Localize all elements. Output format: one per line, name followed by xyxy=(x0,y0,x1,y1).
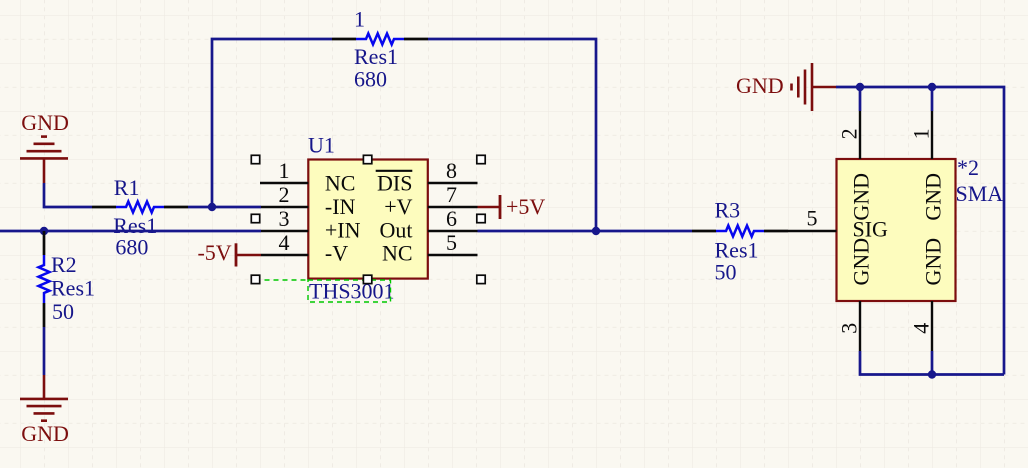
wire: R1 to inverting input (pin 2) xyxy=(188,206,261,209)
wire: GND top-left down to R1 xyxy=(44,183,92,207)
svg-text:+V: +V xyxy=(384,194,412,219)
svg-text:*2: *2 xyxy=(957,155,979,180)
node: junction GND bus / SMA pin 2 xyxy=(856,83,864,91)
node: junction output/feedback xyxy=(592,227,600,235)
svg-text:5: 5 xyxy=(446,230,457,255)
wire: top segment right of R(1) down to output node xyxy=(428,39,596,231)
resistor R? "1" (feedback 680) xyxy=(332,34,428,45)
svg-text:R2: R2 xyxy=(51,252,77,277)
svg-text:50: 50 xyxy=(715,260,737,285)
pin 3 (+IN) xyxy=(261,230,308,232)
svg-text:GND: GND xyxy=(849,238,874,286)
pin 8 (DIS) xyxy=(428,182,478,184)
pin 5 of SMA (left, SIG) xyxy=(788,230,837,232)
pin 5 (NC) xyxy=(428,254,478,256)
wire: stub to SMA pin 1 xyxy=(931,87,934,111)
svg-text:1: 1 xyxy=(354,7,365,32)
node: junction feedback/R1 xyxy=(208,203,216,211)
pin 4 (-V) xyxy=(261,254,308,256)
svg-text:50: 50 xyxy=(52,299,74,324)
svg-text:GND: GND xyxy=(21,110,69,135)
svg-text:+5V: +5V xyxy=(506,194,545,219)
svg-text:1: 1 xyxy=(279,158,290,183)
node: junction GND bus / SMA pin 1 xyxy=(928,83,936,91)
svg-text:680: 680 xyxy=(354,66,387,91)
svg-text:NC: NC xyxy=(325,170,356,195)
svg-text:6: 6 xyxy=(446,206,457,231)
wire: output (pin 6) to R3 xyxy=(478,230,693,233)
power port GND bottom-left xyxy=(20,375,69,446)
svg-text:SMA: SMA xyxy=(956,181,1004,206)
svg-text:-IN: -IN xyxy=(325,194,356,219)
pin 7 (+V) xyxy=(428,206,478,208)
svg-text:-5V: -5V xyxy=(197,240,231,265)
wire: main input wire to +IN (pin 3) xyxy=(0,230,261,233)
svg-text:SIG: SIG xyxy=(853,216,889,241)
power port GND top-right (rotated) xyxy=(736,63,836,111)
resistor R2 (vertical) xyxy=(39,231,50,327)
svg-text:GND: GND xyxy=(921,173,946,221)
op-amp U1 body xyxy=(308,160,428,279)
pin 3 of SMA (bottom-left) xyxy=(859,301,861,351)
power port +5V on pin 7 xyxy=(478,194,546,219)
svg-text:4: 4 xyxy=(279,230,290,255)
wire: feedback vertical + top segment left of R(1) xyxy=(212,39,332,207)
svg-text:GND: GND xyxy=(21,421,69,446)
svg-text:R3: R3 xyxy=(715,197,741,222)
svg-text:1: 1 xyxy=(909,128,934,139)
svg-text:R1: R1 xyxy=(114,175,140,200)
svg-text:-V: -V xyxy=(325,241,348,266)
svg-text:GND: GND xyxy=(921,238,946,286)
node: junction main wire / R2 xyxy=(40,227,48,235)
svg-text:NC: NC xyxy=(382,241,413,266)
connector P? SMA body xyxy=(837,159,956,301)
svg-text:U1: U1 xyxy=(308,133,335,158)
svg-text:3: 3 xyxy=(836,323,861,334)
pin 1 (NC) xyxy=(260,182,308,184)
svg-text:THS3001: THS3001 xyxy=(309,279,395,304)
svg-text:Out: Out xyxy=(380,217,413,242)
power port -5V on pin 4 xyxy=(197,240,261,266)
power port GND top-left xyxy=(20,110,69,183)
selection handles of U1 xyxy=(251,155,485,283)
wire: SMA pin 3 down and along bottom xyxy=(860,351,1004,375)
wire: stub to SMA pin 2 xyxy=(859,87,862,111)
resistor R1 xyxy=(92,202,188,213)
svg-text:5: 5 xyxy=(807,205,818,230)
selection dashed box around THS3001 xyxy=(256,280,391,302)
wire: GND top-right bus across SMA pins, down right side xyxy=(836,87,1004,375)
svg-text:Res1: Res1 xyxy=(354,44,398,69)
svg-text:DIS: DIS xyxy=(377,170,412,195)
svg-text:8: 8 xyxy=(446,158,457,183)
svg-text:7: 7 xyxy=(446,182,457,207)
svg-text:2: 2 xyxy=(836,128,861,139)
svg-text:4: 4 xyxy=(909,323,934,334)
svg-text:GND: GND xyxy=(736,73,784,98)
pin 2 (-IN) xyxy=(261,206,308,208)
svg-text:3: 3 xyxy=(279,206,290,231)
node: junction bottom wire / SMA pin 4 xyxy=(928,370,936,378)
svg-text:GND: GND xyxy=(849,173,874,221)
svg-text:+IN: +IN xyxy=(325,217,361,242)
pin 6 (Out) xyxy=(428,230,478,232)
pin 1 of SMA (top-right) xyxy=(931,111,933,159)
svg-text:2: 2 xyxy=(279,182,290,207)
resistor R3 xyxy=(692,226,788,237)
wire: R2 down to GND xyxy=(43,327,46,375)
pin 2 of SMA (top-left) xyxy=(859,111,861,159)
wire: SMA pin 4 stub down xyxy=(931,351,934,375)
svg-text:Res1: Res1 xyxy=(51,276,95,301)
pin 4 of SMA (bottom-right) xyxy=(931,301,933,351)
svg-text:680: 680 xyxy=(115,234,148,259)
